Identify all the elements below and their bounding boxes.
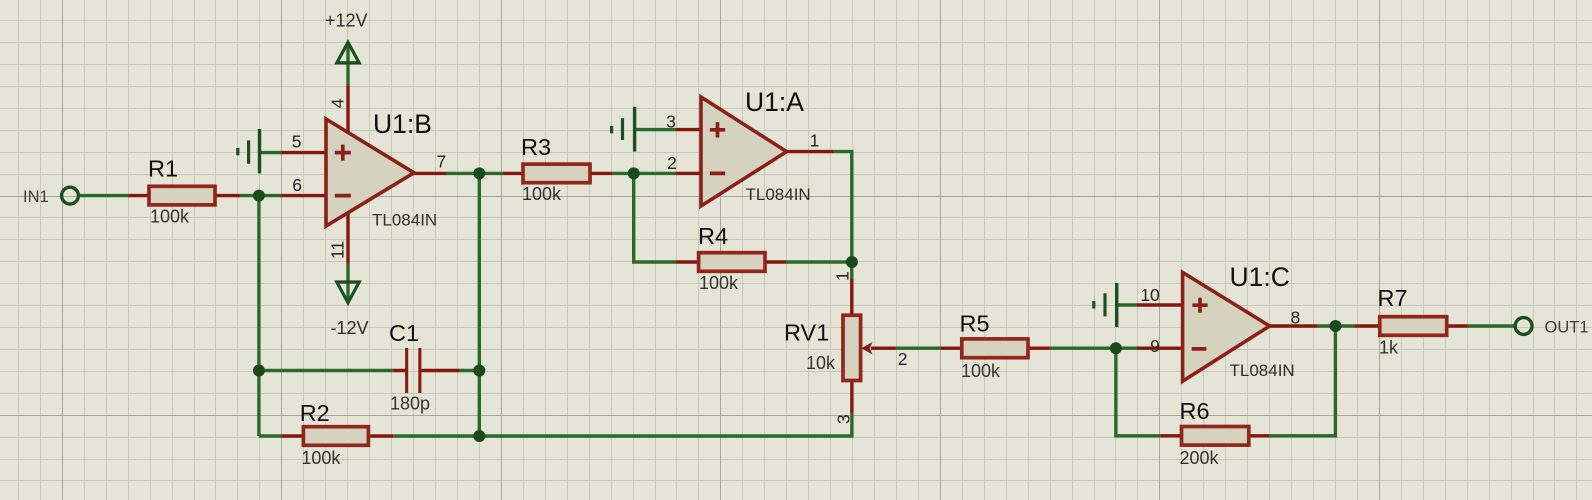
power +12V arrow: [337, 42, 359, 63]
resistor R1: [149, 186, 215, 205]
wire RV1 wiper to R5: [896, 347, 941, 350]
node C1 left junction: [253, 365, 265, 377]
wire U1:B pin11 lead: [346, 207, 349, 263]
svg-text:U1:C: U1:C: [1230, 262, 1290, 292]
wire -12V stem: [346, 263, 349, 302]
svg-text:2: 2: [898, 349, 908, 369]
svg-text:+12V: +12V: [325, 11, 368, 31]
svg-text:6: 6: [292, 175, 302, 195]
svg-text:11: 11: [328, 241, 348, 259]
terminal IN1: [62, 187, 79, 204]
wire R1 right lead: [215, 194, 240, 197]
svg-text:R3: R3: [521, 134, 551, 160]
potentiometer RV1: [843, 315, 873, 380]
svg-text:100k: 100k: [150, 207, 190, 227]
resistor R4: [699, 253, 765, 272]
svg-text:3: 3: [666, 111, 676, 131]
op-amp U1:A: [701, 97, 787, 206]
node R4 right junction: [846, 256, 858, 268]
node C1 right junction: [473, 365, 485, 377]
wire R5 leads: [941, 347, 1050, 350]
wire U1:C pin10 lead: [1137, 303, 1183, 306]
svg-text:1k: 1k: [1379, 337, 1399, 357]
svg-text:TL084IN: TL084IN: [746, 185, 811, 204]
wire R2 left lead run: [259, 434, 282, 437]
svg-text:R6: R6: [1180, 398, 1210, 424]
svg-text:100k: 100k: [961, 361, 1001, 381]
wire U1:B pin7 lead: [412, 172, 446, 175]
node R2 right junction: [473, 430, 485, 442]
wire R6 right up to output node: [1269, 326, 1335, 436]
capacitor C1: [405, 348, 421, 393]
svg-text:1: 1: [833, 271, 853, 281]
wire ground to U1:C pin10: [1117, 303, 1137, 306]
resistor R2: [303, 427, 368, 446]
wire U1:A pin3 lead: [675, 128, 701, 131]
power -12V arrow: [337, 282, 359, 303]
svg-text:10: 10: [1140, 285, 1160, 305]
wire U1:B out to R3: [446, 172, 503, 175]
wire C1 right: [460, 369, 480, 372]
svg-text:2: 2: [667, 153, 677, 173]
op-amp U1:B: [326, 119, 414, 226]
svg-text:-12V: -12V: [331, 318, 369, 338]
svg-text:180p: 180p: [390, 394, 430, 414]
terminal OUT1: [1515, 318, 1532, 335]
svg-text:9: 9: [1150, 336, 1160, 356]
wire U1:B pin5 lead: [281, 151, 326, 154]
svg-text:IN1: IN1: [23, 188, 49, 206]
wire node down to R6 left: [1116, 348, 1161, 436]
resistor R7: [1380, 317, 1447, 336]
wire U1:A pin1 lead: [785, 150, 834, 153]
svg-text:4: 4: [328, 98, 348, 108]
wire R1 to U1:B pin6 with node: [240, 194, 282, 197]
node U1:B out junction: [473, 167, 485, 179]
svg-text:100k: 100k: [301, 448, 341, 468]
wire vertical from node A down to R2 corner: [257, 196, 260, 436]
wire R7 to OUT1: [1468, 324, 1516, 327]
wire ground to U1:B pin5: [259, 151, 281, 154]
wire ground to U1:A pin3: [635, 128, 676, 131]
wire R3 leads: [503, 172, 613, 175]
wire C1 left: [259, 369, 393, 372]
svg-text:OUT1: OUT1: [1545, 319, 1589, 337]
svg-text:R5: R5: [960, 311, 990, 337]
wire R4 leads: [676, 260, 786, 263]
wire R3 to U1:A pin2: [613, 172, 675, 175]
wire C1 leads: [393, 369, 459, 372]
svg-text:U1:A: U1:A: [745, 87, 804, 117]
node U1:C pin9 junction: [1110, 342, 1122, 354]
svg-text:C1: C1: [389, 320, 419, 346]
svg-text:R4: R4: [698, 223, 728, 249]
wire +12V stem: [346, 42, 349, 85]
svg-text:U1:B: U1:B: [373, 109, 432, 139]
node pin6 junction: [253, 190, 265, 202]
wire R4 right to node: [786, 260, 852, 263]
wire R1 left lead: [129, 194, 150, 197]
ground symbol at U1:A pin3: [610, 107, 636, 152]
wire U1:A out down to RV1 pin1: [834, 152, 852, 279]
svg-text:TL084IN: TL084IN: [1230, 361, 1295, 380]
svg-text:10k: 10k: [806, 353, 836, 373]
op-amp U1:C: [1183, 272, 1270, 381]
wire R2 leads: [282, 434, 394, 437]
wire RV1 pin3 lead: [850, 381, 853, 414]
ground symbol at U1:B pin5: [236, 129, 261, 173]
wire U1:C pin8 lead: [1268, 324, 1318, 327]
wire vertical feedback at x=479: [478, 173, 481, 436]
resistor R6: [1182, 427, 1249, 446]
svg-text:R2: R2: [300, 400, 330, 426]
wire RV1 wiper lead: [871, 347, 896, 350]
wire R6 leads: [1160, 434, 1269, 437]
wire IN1 to R1: [79, 194, 129, 197]
svg-text:5: 5: [292, 132, 302, 152]
wire U1:C pin9 lead: [1137, 347, 1183, 350]
svg-text:R7: R7: [1378, 285, 1408, 311]
svg-text:200k: 200k: [1180, 448, 1220, 468]
ground symbol at U1:C pin10: [1092, 283, 1118, 327]
wire R7 leads: [1354, 324, 1467, 327]
svg-text:8: 8: [1291, 307, 1301, 327]
resistor R5: [962, 339, 1028, 358]
svg-text:100k: 100k: [522, 184, 562, 204]
wire R5 to U1:C pin9 node: [1050, 347, 1137, 350]
svg-text:7: 7: [437, 152, 447, 172]
svg-text:TL084IN: TL084IN: [372, 211, 437, 230]
resistor R3: [523, 164, 590, 183]
wire U1:B pin4 lead: [346, 85, 349, 134]
wire U1:A pin2 lead: [675, 172, 701, 175]
wire node to R4 left: [634, 173, 676, 262]
node U1:A pin2 junction: [628, 167, 640, 179]
svg-text:100k: 100k: [699, 273, 739, 293]
wire R2 right to RV1 pin3: [393, 414, 852, 436]
svg-text:R1: R1: [148, 155, 178, 181]
wire RV1 pin1 lead: [850, 279, 853, 316]
svg-text:1: 1: [810, 131, 820, 151]
wire U1:C out to R7: [1318, 324, 1355, 327]
svg-text:3: 3: [834, 414, 854, 424]
node U1:C out junction: [1330, 320, 1342, 332]
wire U1:B pin6 lead: [281, 194, 326, 197]
svg-text:RV1: RV1: [784, 320, 829, 346]
